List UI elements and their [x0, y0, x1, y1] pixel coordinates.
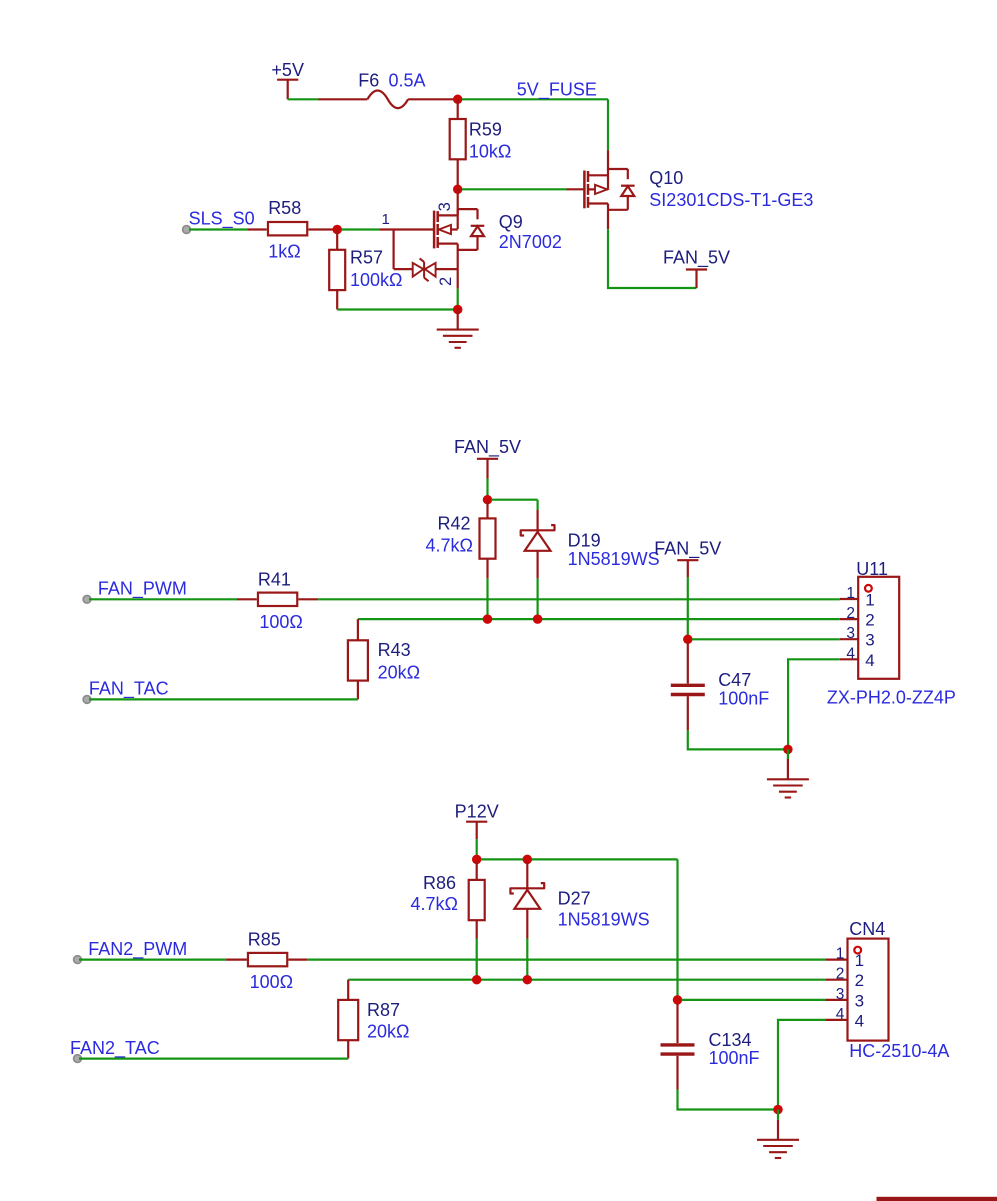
- svg-text:4.7kΩ: 4.7kΩ: [411, 894, 458, 914]
- input pin SLS_S0: [183, 226, 191, 234]
- wire SLS_S0 to R58: [189, 228, 247, 230]
- connector U11: [858, 577, 899, 679]
- resistor R86: [469, 880, 485, 920]
- wire P12V stem to node: [476, 839, 478, 856]
- resistor R57 bottom lead: [336, 290, 338, 309]
- junction long wire/C134/pin3: [673, 995, 683, 1005]
- svg-text:2: 2: [437, 277, 455, 286]
- connector CN4 pin 1 stub: [825, 958, 847, 960]
- connector CN4 pin 2 stub: [825, 979, 847, 981]
- svg-text:SI2301CDS-T1-GE3: SI2301CDS-T1-GE3: [649, 190, 813, 210]
- capacitor C47: [671, 685, 705, 694]
- wire C134 to ground node: [678, 1090, 776, 1110]
- svg-text:FAN2_TAC: FAN2_TAC: [70, 1038, 160, 1059]
- wire junction to Q10 gate: [462, 188, 567, 190]
- svg-text:F6: F6: [358, 70, 379, 90]
- wire R85 to CN4 pin 1: [307, 958, 825, 960]
- junction R42/line2: [483, 614, 493, 624]
- svg-text:20kΩ: 20kΩ: [367, 1022, 409, 1042]
- capacitor C134: [661, 1045, 695, 1054]
- wire C47 to ground node: [688, 730, 785, 749]
- svg-text:R87: R87: [367, 1000, 400, 1020]
- svg-text:1: 1: [836, 946, 845, 963]
- resistor R43 bottom lead: [357, 681, 359, 700]
- resistor R42 bottom lead: [486, 559, 488, 579]
- wire pin3 node to U11 pin 3: [692, 638, 840, 640]
- svg-text:FAN_TAC: FAN_TAC: [89, 679, 169, 700]
- resistor R42: [480, 518, 496, 558]
- svg-text:R85: R85: [248, 930, 281, 950]
- transistor Q10 drain lead: [607, 150, 609, 170]
- fuse F6: [319, 91, 454, 109]
- resistor R58 left lead: [247, 228, 266, 230]
- svg-text:D27: D27: [558, 888, 591, 908]
- capacitor C134 top lead: [676, 1004, 678, 1044]
- svg-text:4.7kΩ: 4.7kΩ: [426, 536, 473, 556]
- junction P12V/R86: [472, 855, 482, 865]
- connector U11 pin 2 stub: [840, 618, 858, 620]
- svg-text:+5V: +5V: [271, 60, 304, 80]
- junction C47/pin4/GND: [783, 745, 793, 755]
- svg-text:3: 3: [836, 986, 845, 1003]
- resistor R59 bottom lead: [457, 160, 459, 188]
- protection diode of Q9 (bowtie): [394, 230, 458, 282]
- diode D19 bottom lead: [536, 551, 538, 579]
- resistor R41 left lead: [237, 598, 257, 600]
- power symbol FAN_5V (top right): [663, 247, 730, 269]
- resistor R58: [268, 222, 307, 235]
- wire 5V_FUSE down to Q10: [607, 99, 609, 150]
- svg-text:FAN2_PWM: FAN2_PWM: [88, 939, 187, 960]
- svg-text:100nF: 100nF: [709, 1048, 760, 1068]
- input pin FAN_PWM: [83, 595, 91, 603]
- svg-text:2: 2: [846, 605, 855, 622]
- svg-text:D19: D19: [568, 531, 601, 551]
- wire U11 pin 4 to ground node: [788, 659, 840, 749]
- svg-text:ZX-PH2.0-ZZ4P: ZX-PH2.0-ZZ4P: [827, 688, 956, 708]
- power P12V stem: [476, 822, 478, 839]
- connector U11 pin 1 stub: [840, 598, 858, 600]
- svg-text:100Ω: 100Ω: [250, 972, 294, 992]
- connector U11 pin 3 stub: [840, 638, 858, 640]
- resistor R86 bottom lead: [476, 920, 478, 938]
- svg-text:20kΩ: 20kΩ: [378, 662, 420, 682]
- svg-text:R59: R59: [469, 120, 502, 140]
- input pin FAN2_TAC: [74, 1055, 82, 1063]
- connector CN4 pin 4 stub: [825, 1019, 847, 1021]
- transistor Q9 (N-MOSFET): [434, 209, 484, 250]
- svg-text:P12V: P12V: [455, 802, 499, 822]
- svg-text:C134: C134: [709, 1030, 752, 1050]
- svg-text:0.5A: 0.5A: [389, 70, 426, 90]
- power symbol FAN_5V (middle): [454, 437, 521, 459]
- wire R41 to U11 pin 1: [318, 598, 840, 600]
- input pin FAN2_PWM: [74, 956, 82, 964]
- wire Q9 source to ground node: [457, 250, 459, 289]
- junction R86/line2: [472, 975, 482, 985]
- svg-text:4: 4: [865, 651, 874, 670]
- junction FAN_5V/R42/D19: [483, 495, 493, 505]
- power symbol P12V: [455, 802, 499, 822]
- junction D27/line2: [523, 975, 533, 985]
- svg-text:FAN_5V: FAN_5V: [654, 539, 721, 560]
- svg-text:1: 1: [846, 585, 855, 602]
- resistor R86 top lead: [476, 862, 478, 880]
- resistor R58 right lead: [308, 228, 337, 230]
- frame line (bottom right): [877, 1197, 997, 1201]
- svg-text:1: 1: [382, 211, 390, 228]
- resistor R42 top lead: [486, 502, 488, 519]
- svg-text:FAN_5V: FAN_5V: [454, 437, 521, 458]
- ground symbol (Q9 source): [437, 310, 479, 348]
- resistor R87 top lead: [347, 980, 349, 1000]
- svg-text:FAN_5V: FAN_5V: [663, 247, 730, 268]
- svg-text:2N7002: 2N7002: [499, 232, 562, 252]
- power FAN_5V stem (at U11): [687, 560, 689, 577]
- wire node to D19 column: [491, 499, 538, 501]
- svg-text:4: 4: [836, 1006, 845, 1023]
- wire +5V to fuse: [288, 98, 319, 100]
- svg-text:100kΩ: 100kΩ: [350, 270, 403, 290]
- wire down to D19: [536, 500, 538, 510]
- wire down to pin3 node (long): [676, 859, 678, 996]
- capacitor C47 top lead: [687, 643, 689, 684]
- resistor R85: [248, 953, 287, 966]
- svg-text:R57: R57: [350, 248, 383, 268]
- wire D19 to bus line2: [536, 578, 538, 616]
- junction FAN_5V/C47/pin3: [683, 635, 693, 645]
- transistor Q10 (P-MOSFET): [584, 169, 634, 210]
- wire pin3 node to CN4 pin 3: [682, 999, 826, 1001]
- svg-text:4: 4: [846, 645, 855, 662]
- wire junction to Q9 gate: [342, 228, 380, 230]
- svg-text:1N5819WS: 1N5819WS: [568, 549, 660, 569]
- diode D19: [521, 510, 555, 551]
- resistor R57: [329, 250, 345, 290]
- capacitor C134 bottom lead: [676, 1056, 678, 1090]
- connector CN4: [848, 939, 889, 1041]
- svg-text:1N5819WS: 1N5819WS: [558, 909, 650, 929]
- wire CN4 pin 4 to ground node: [778, 1020, 825, 1110]
- svg-text:R86: R86: [423, 873, 456, 893]
- junction R58/R57/Q9-gate: [332, 225, 342, 235]
- svg-text:Q10: Q10: [649, 168, 683, 188]
- junction D19/line2: [533, 614, 543, 624]
- wire bus line2 to CN4 pin 2: [348, 979, 825, 981]
- junction Q9 source/R57/GND: [453, 305, 463, 315]
- svg-text:5V_FUSE: 5V_FUSE: [517, 79, 597, 100]
- wire +5V stem: [287, 80, 289, 100]
- transistor Q9 drain lead: [457, 189, 459, 215]
- wire FAN_5V down to pin3 node: [687, 577, 689, 637]
- svg-text:4: 4: [855, 1011, 864, 1030]
- resistor R85 left lead: [226, 958, 247, 960]
- wire FAN_PWM to R41: [89, 598, 237, 600]
- ground symbol (C134): [757, 1110, 799, 1159]
- svg-text:2: 2: [836, 966, 845, 983]
- junction C134/pin4/GND: [773, 1105, 783, 1115]
- wire 5V_FUSE: [462, 98, 608, 100]
- power symbol FAN_5V (at U11): [654, 539, 721, 561]
- svg-text:R58: R58: [268, 198, 301, 218]
- wire FAN2_TAC to R87: [79, 1057, 348, 1059]
- svg-text:FAN_PWM: FAN_PWM: [98, 579, 187, 600]
- resistor R87: [338, 1000, 358, 1040]
- svg-text:100Ω: 100Ω: [259, 612, 303, 632]
- junction 5V_FUSE: [453, 95, 463, 105]
- svg-text:3: 3: [865, 631, 874, 650]
- resistor R59 top lead: [457, 99, 459, 119]
- svg-text:HC-2510-4A: HC-2510-4A: [849, 1041, 949, 1061]
- transistor Q10 source lead down: [607, 210, 609, 229]
- resistor R43 top lead: [357, 619, 359, 640]
- wire Q10 gate lead: [567, 188, 585, 190]
- svg-text:10kΩ: 10kΩ: [469, 142, 511, 162]
- diode D27 bottom lead: [526, 909, 528, 939]
- svg-text:Q9: Q9: [499, 212, 523, 232]
- junction D27 top: [523, 855, 533, 865]
- svg-text:CN4: CN4: [849, 919, 885, 939]
- diode D27: [510, 862, 544, 909]
- svg-text:R43: R43: [378, 640, 411, 660]
- wire FAN_5V stem to node: [486, 479, 488, 497]
- svg-text:2: 2: [865, 611, 874, 630]
- svg-text:3: 3: [855, 991, 864, 1010]
- wire FAN_TAC to R43: [89, 698, 358, 700]
- input pin FAN_TAC: [83, 696, 91, 704]
- wire D27 to bus line2: [526, 939, 528, 978]
- svg-text:U11: U11: [856, 559, 888, 579]
- transistor Q9 source lead down: [457, 209, 459, 211]
- svg-text:100nF: 100nF: [718, 688, 769, 708]
- resistor R41 right lead: [298, 598, 318, 600]
- wire bus line2 to U11 pin 2: [358, 618, 840, 620]
- svg-text:1kΩ: 1kΩ: [268, 241, 300, 261]
- junction R59/Q9/Q10-gate: [453, 185, 463, 195]
- wire node to D27 and right: [481, 858, 678, 860]
- resistor R59: [450, 119, 466, 159]
- svg-text:SLS_S0: SLS_S0: [189, 209, 255, 230]
- svg-text:R42: R42: [437, 514, 470, 534]
- wire Q10 to FAN_5V: [608, 229, 697, 288]
- svg-text:R41: R41: [258, 569, 291, 589]
- power symbol +5V: [271, 60, 304, 80]
- svg-text:1: 1: [865, 591, 874, 610]
- resistor R41: [258, 593, 297, 606]
- svg-text:C47: C47: [718, 670, 751, 690]
- svg-text:3: 3: [436, 202, 454, 211]
- wire FAN2_PWM to R85: [79, 958, 226, 960]
- svg-text:2: 2: [855, 971, 864, 990]
- resistor R85 right lead: [288, 958, 307, 960]
- resistor R43: [348, 640, 368, 680]
- connector U11 pin 4 stub: [840, 658, 858, 660]
- svg-text:3: 3: [846, 625, 855, 642]
- svg-text:1: 1: [855, 951, 864, 970]
- power FAN_5V stem (top right): [695, 270, 697, 289]
- wire R42 to bus line2: [486, 578, 488, 616]
- ground symbol (C47): [767, 749, 809, 797]
- wire Q9 gate lead: [379, 228, 433, 230]
- power FAN_5V stem (middle): [486, 459, 488, 479]
- wire R57 to Q9 source: [337, 308, 458, 310]
- connector CN4 pin 3 stub: [825, 999, 847, 1001]
- resistor R57 top lead: [336, 230, 338, 250]
- resistor R87 bottom lead: [347, 1040, 349, 1058]
- capacitor C47 bottom lead: [687, 696, 689, 730]
- wire R86 to bus line2: [476, 939, 478, 978]
